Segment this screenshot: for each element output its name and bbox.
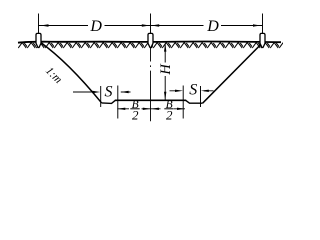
ground hatch: [18, 42, 283, 49]
svg-text:D: D: [206, 18, 219, 35]
svg-text:2: 2: [132, 108, 139, 123]
ground line: [18, 41, 281, 42]
dimension H: line: [164, 44, 166, 100]
extension line above right stake: [262, 14, 264, 34]
B/2 left: fraction: [130, 108, 139, 110]
left slope (1:m): [40, 42, 102, 103]
dimension D left: line: [39, 25, 151, 27]
svg-text:1:m: 1:m: [43, 65, 64, 86]
svg-text:H: H: [158, 63, 174, 76]
center stake: [148, 33, 153, 47]
S right: dim line and arrows: [170, 90, 214, 92]
dimension H: arrows: [164, 44, 166, 100]
left stake: [36, 33, 41, 47]
B/2 right: fraction: [164, 108, 173, 110]
S right: extension lines: [183, 86, 200, 119]
svg-text:D: D: [89, 18, 102, 35]
right stake: [260, 33, 265, 47]
S left: dim line and arrows: [73, 91, 131, 93]
svg-text:2: 2: [166, 108, 173, 123]
dimension D left: arrows: [41, 24, 150, 26]
centerline (dash-dot): [150, 48, 152, 122]
svg-text:S: S: [189, 82, 197, 99]
svg-text:S: S: [105, 83, 113, 100]
left berm ledge: [102, 100, 116, 103]
B/2 left: dim line tails and arrows: [117, 108, 151, 110]
trench bottom: [115, 99, 186, 101]
dimension D right: line: [151, 25, 263, 27]
dimension D right: arrows: [151, 24, 261, 26]
S left: extension lines: [101, 86, 118, 119]
right slope: [203, 44, 262, 103]
B/2 right: dim line tails and arrows: [151, 108, 185, 110]
extension line above center stake: [150, 14, 152, 34]
right berm ledge: [186, 100, 203, 103]
extension line above left stake: [38, 14, 40, 34]
